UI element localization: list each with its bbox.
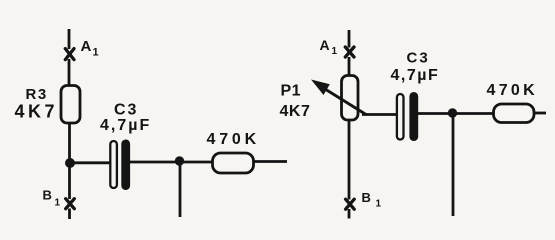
- svg-text:470K: 470K: [487, 82, 538, 99]
- svg-text:4,7µF: 4,7µF: [100, 117, 151, 134]
- wire dropping down from junction (left): [179, 162, 182, 217]
- svg-text:1: 1: [332, 46, 338, 57]
- resistor 470K body (left): [213, 153, 254, 173]
- wire from R3 down through junction to cut point B1: [68, 123, 71, 199]
- node label B1 (right): [362, 190, 382, 210]
- junction dot (left node): [65, 158, 75, 168]
- wire from junction to capacitor C3 (left): [70, 161, 111, 164]
- cut mark X at node B1 (left): [66, 199, 75, 209]
- wire below B1 (right): [348, 209, 351, 219]
- svg-text:C3: C3: [407, 50, 430, 67]
- svg-text:1: 1: [93, 47, 99, 59]
- wire from wiper to capacitor C3 (right): [362, 113, 398, 116]
- wire from A1 to potentiometer P1: [348, 57, 351, 76]
- svg-text:R3: R3: [26, 86, 48, 103]
- capacitor C3 left plate (outlined, right circuit): [397, 94, 404, 140]
- wire from P1 down to cut point B1 (right): [348, 120, 351, 200]
- potentiometer wiper arrow shaft: [317, 84, 366, 115]
- svg-text:4K7: 4K7: [280, 103, 311, 120]
- svg-text:1: 1: [376, 199, 382, 210]
- wire from A1 to resistor R3: [68, 59, 71, 86]
- svg-text:1: 1: [55, 198, 61, 209]
- capacitor C3 right plate (solid, right circuit): [409, 92, 418, 141]
- node label A1 (right): [320, 37, 338, 57]
- potentiometer P1 body: [342, 76, 359, 121]
- svg-text:B: B: [43, 188, 52, 203]
- svg-text:4,7µF: 4,7µF: [391, 67, 440, 84]
- svg-text:A: A: [320, 37, 331, 53]
- wire dropping down from junction (right): [452, 114, 455, 216]
- cut mark X at node A1 (left): [65, 49, 74, 60]
- node label A1 (left): [81, 38, 99, 59]
- potentiometer wiper arrowhead: [311, 80, 330, 96]
- wire below B1 (left): [68, 209, 71, 220]
- capacitor C3 left plate (outlined): [110, 141, 117, 188]
- wire from top to cut point A1 (left): [68, 29, 71, 49]
- svg-text:P1: P1: [281, 83, 302, 100]
- svg-text:A: A: [81, 38, 93, 55]
- svg-text:470K: 470K: [207, 131, 260, 148]
- wire from capacitor to resistor 470K (left): [130, 161, 213, 164]
- wire from capacitor to 470K (right): [418, 112, 494, 115]
- wire from 470K to right edge (right circuit output): [534, 112, 546, 115]
- node label B1 (left): [43, 188, 61, 209]
- cut mark X at node B1 (right): [346, 199, 355, 209]
- junction dot before 470K (left): [175, 156, 184, 165]
- resistor R3 body: [61, 86, 80, 124]
- wire from 470K to right (left circuit output): [254, 160, 288, 163]
- resistor 470K body (right): [494, 104, 535, 123]
- junction dot before 470K (right): [448, 108, 457, 117]
- svg-text:4K7: 4K7: [15, 102, 59, 122]
- svg-text:B: B: [362, 190, 371, 205]
- svg-text:C3: C3: [114, 102, 138, 119]
- capacitor C3 right plate (solid): [121, 140, 130, 191]
- cut mark X at node A1 (right): [345, 47, 354, 57]
- wire from top to cut point A1 (right): [348, 30, 351, 48]
